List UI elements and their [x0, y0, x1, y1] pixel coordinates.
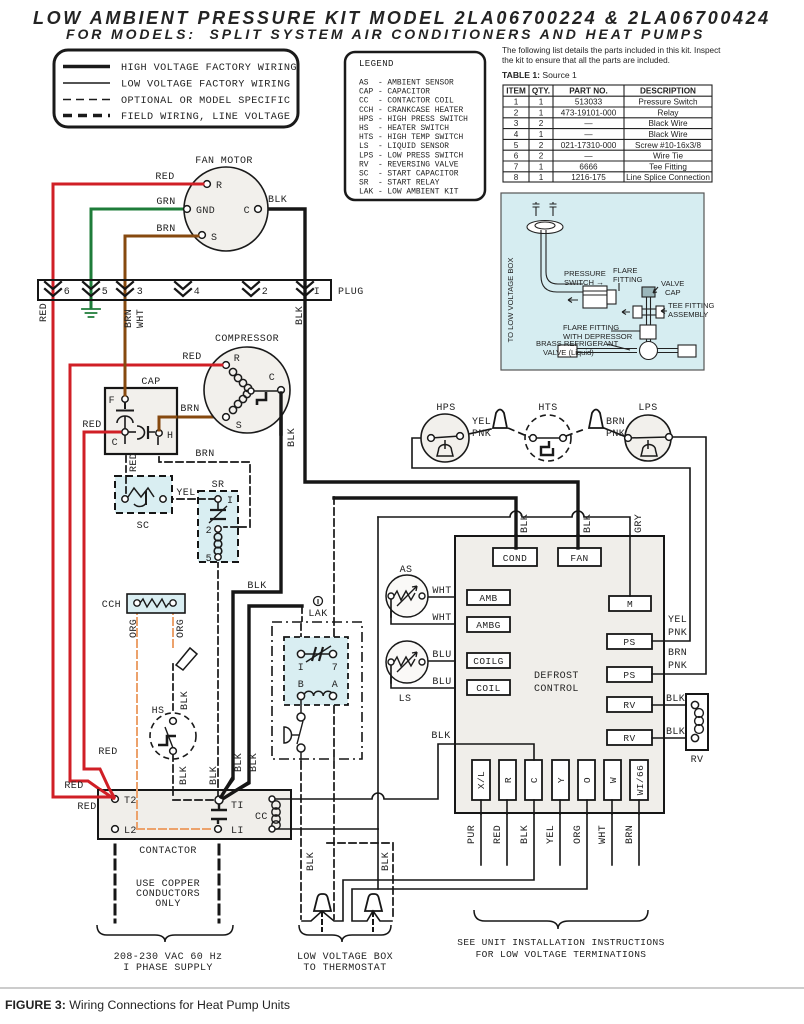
svg-text:BLU: BLU [432, 650, 451, 661]
svg-text:LS - LIQUID SENSOR: LS - LIQUID SENSOR [359, 142, 449, 151]
svg-text:HPS - HIGH PRESS SWITCH: HPS - HIGH PRESS SWITCH [359, 115, 468, 124]
svg-text:AMB: AMB [479, 593, 497, 604]
svg-text:FLARE FITTING: FLARE FITTING [563, 323, 619, 332]
svg-text:1: 1 [514, 98, 519, 107]
svg-text:RED: RED [98, 747, 117, 758]
svg-text:B: B [298, 680, 304, 691]
svg-text:—: — [584, 119, 593, 128]
svg-text:I PHASE SUPPLY: I PHASE SUPPLY [123, 963, 213, 974]
svg-text:WHT: WHT [432, 613, 451, 624]
svg-text:TABLE 1: Source 1: TABLE 1: Source 1 [502, 70, 577, 80]
svg-text:3: 3 [514, 119, 519, 128]
svg-text:VALVE: VALVE [661, 279, 684, 288]
svg-text:1: 1 [539, 162, 544, 171]
svg-text:Wire Tie: Wire Tie [653, 152, 683, 161]
svg-text:COMPRESSOR: COMPRESSOR [215, 334, 279, 345]
svg-text:RV: RV [691, 755, 704, 766]
svg-text:BLK: BLK [666, 694, 685, 705]
svg-text:021-17310-000: 021-17310-000 [561, 141, 617, 150]
svg-text:PRESSURE: PRESSURE [564, 269, 606, 278]
svg-text:RED: RED [64, 781, 83, 792]
svg-text:ASSEMBLY: ASSEMBLY [668, 310, 708, 319]
svg-text:FAN MOTOR: FAN MOTOR [195, 156, 253, 167]
svg-text:FOR MODELS: SPLIT SYSTEM AIR: FOR MODELS: SPLIT SYSTEM AIR CONDITIONER… [66, 26, 705, 42]
svg-text:SC: SC [137, 521, 150, 532]
svg-text:YEL: YEL [176, 488, 195, 499]
svg-text:2: 2 [539, 119, 544, 128]
svg-text:6: 6 [514, 152, 519, 161]
svg-text:BLK: BLK [209, 766, 220, 785]
svg-text:DEFROST: DEFROST [534, 671, 579, 682]
svg-text:Pressure Switch: Pressure Switch [638, 98, 698, 107]
svg-text:RED: RED [129, 453, 140, 472]
svg-text:ITEM: ITEM [506, 87, 526, 96]
svg-text:C: C [529, 777, 540, 783]
svg-text:PNK: PNK [472, 429, 491, 440]
svg-text:COILG: COILG [473, 656, 504, 667]
svg-text:BLK: BLK [287, 428, 298, 447]
svg-text:HPS: HPS [436, 403, 455, 414]
svg-text:HIGH VOLTAGE FACTORY WIRING: HIGH VOLTAGE FACTORY WIRING [121, 63, 297, 74]
svg-text:Line Splice Connection: Line Splice Connection [626, 173, 710, 182]
svg-text:S: S [211, 233, 217, 244]
svg-text:SEE UNIT INSTALLATION INSTRUCT: SEE UNIT INSTALLATION INSTRUCTIONS [457, 937, 664, 948]
svg-text:O: O [582, 777, 593, 783]
svg-text:BRASS REFRIGERANT: BRASS REFRIGERANT [536, 339, 619, 348]
svg-text:—: — [584, 152, 593, 161]
svg-text:R: R [216, 181, 222, 192]
svg-text:5: 5 [514, 141, 519, 150]
svg-text:PNK: PNK [668, 661, 687, 672]
svg-text:BLK: BLK [520, 514, 531, 533]
svg-text:7: 7 [332, 663, 338, 674]
svg-text:PLUG: PLUG [338, 287, 364, 298]
svg-text:GRN: GRN [156, 197, 175, 208]
svg-text:1: 1 [539, 98, 544, 107]
svg-text:LOW VOLTAGE FACTORY WIRING: LOW VOLTAGE FACTORY WIRING [121, 80, 290, 91]
svg-text:F: F [109, 396, 115, 407]
svg-text:Y: Y [556, 777, 567, 783]
svg-text:BRN: BRN [668, 648, 687, 659]
svg-text:2: 2 [206, 526, 212, 537]
svg-text:513033: 513033 [575, 98, 603, 107]
svg-text:AS: AS [400, 565, 413, 576]
svg-text:BLK: BLK [179, 766, 190, 785]
svg-text:CAP - CAPACITOR: CAP - CAPACITOR [359, 88, 430, 97]
svg-text:2: 2 [262, 287, 268, 298]
svg-text:YEL: YEL [668, 615, 687, 626]
svg-text:LAK: LAK [308, 609, 327, 620]
svg-text:BLK: BLK [306, 852, 317, 871]
svg-text:7: 7 [514, 162, 519, 171]
svg-text:BLK: BLK [520, 825, 531, 844]
svg-text:OPTIONAL OR MODEL SPECIFIC: OPTIONAL OR MODEL SPECIFIC [121, 96, 290, 107]
svg-text:CAP: CAP [141, 377, 160, 388]
svg-text:1: 1 [539, 130, 544, 139]
svg-text:LEGEND: LEGEND [359, 59, 394, 69]
svg-text:CC - CONTACTOR COIL: CC - CONTACTOR COIL [359, 97, 454, 106]
svg-text:DESCRIPTION: DESCRIPTION [640, 87, 696, 96]
svg-text:AS - AMBIENT SENSOR: AS - AMBIENT SENSOR [359, 79, 454, 88]
svg-text:TI: TI [231, 801, 244, 812]
svg-text:H: H [167, 431, 173, 442]
svg-text:HTS - HIGH TEMP SWITCH: HTS - HIGH TEMP SWITCH [359, 133, 463, 142]
svg-text:BRN: BRN [156, 224, 175, 235]
svg-text:I: I [314, 287, 320, 298]
svg-text:FOR LOW VOLTAGE TERMINATIONS: FOR LOW VOLTAGE TERMINATIONS [476, 949, 647, 960]
svg-text:Tee Fitting: Tee Fitting [649, 162, 687, 171]
svg-text:BRN: BRN [180, 404, 199, 415]
svg-text:L2: L2 [124, 826, 137, 837]
svg-text:RED: RED [182, 352, 201, 363]
svg-text:SC - START CAPACITOR: SC - START CAPACITOR [359, 170, 459, 179]
svg-text:PNK: PNK [606, 429, 625, 440]
svg-text:1: 1 [539, 108, 544, 117]
svg-text:LS: LS [399, 694, 412, 705]
svg-text:6: 6 [64, 287, 70, 298]
svg-text:W: W [608, 777, 619, 783]
svg-text:BLK: BLK [381, 852, 392, 871]
svg-text:PART NO.: PART NO. [569, 87, 608, 96]
svg-text:5: 5 [206, 554, 212, 565]
svg-text:RED: RED [77, 802, 96, 813]
svg-text:ORG: ORG [176, 619, 187, 638]
svg-text:RED: RED [493, 825, 504, 844]
svg-text:SR - START RELAY: SR - START RELAY [359, 179, 440, 188]
svg-text:2: 2 [514, 108, 519, 117]
svg-text:RV - REVERSING VALVE: RV - REVERSING VALVE [359, 160, 459, 169]
svg-text:Black Wire: Black Wire [648, 130, 688, 139]
svg-text:LI: LI [231, 826, 244, 837]
svg-text:HS: HS [152, 706, 165, 717]
svg-text:C: C [244, 206, 250, 217]
svg-text:BLK: BLK [234, 753, 245, 772]
svg-text:208-230 VAC 60 Hz: 208-230 VAC 60 Hz [114, 952, 223, 963]
svg-text:WHT: WHT [136, 309, 147, 328]
svg-text:BLK: BLK [583, 514, 594, 533]
svg-text:A: A [332, 680, 338, 691]
svg-text:WHT: WHT [432, 586, 451, 597]
svg-text:1: 1 [539, 173, 544, 182]
svg-text:6666: 6666 [579, 162, 598, 171]
svg-text:RED: RED [155, 172, 174, 183]
svg-text:3: 3 [137, 287, 143, 298]
svg-text:BLK: BLK [431, 731, 450, 742]
svg-text:PUR: PUR [467, 825, 478, 844]
svg-text:the kit to ensure that all the: the kit to ensure that all the parts are… [502, 56, 670, 65]
svg-text:TO LOW VOLTAGE BOX: TO LOW VOLTAGE BOX [506, 258, 515, 343]
svg-text:R: R [234, 354, 240, 365]
svg-text:BRN: BRN [625, 825, 636, 844]
svg-text:BRN: BRN [124, 309, 135, 328]
svg-text:RED: RED [39, 303, 50, 322]
svg-text:ORG: ORG [573, 825, 584, 844]
svg-text:BRN: BRN [195, 449, 214, 460]
svg-text:SWITCH →: SWITCH → [564, 278, 604, 287]
svg-text:GND: GND [196, 206, 215, 217]
svg-text:M: M [627, 599, 633, 610]
svg-text:FLARE: FLARE [613, 266, 637, 275]
svg-text:RV: RV [623, 733, 635, 744]
svg-text:—: — [584, 130, 593, 139]
svg-text:BLK: BLK [247, 581, 266, 592]
svg-text:C: C [269, 373, 275, 384]
svg-text:LOW VOLTAGE BOX: LOW VOLTAGE BOX [297, 952, 393, 963]
svg-text:CONTACTOR: CONTACTOR [139, 846, 197, 857]
svg-text:GRY: GRY [634, 514, 645, 533]
svg-text:2: 2 [539, 141, 544, 150]
svg-text:T2: T2 [124, 796, 137, 807]
svg-text:BLK: BLK [268, 195, 287, 206]
svg-text:AMBG: AMBG [476, 620, 500, 631]
svg-text:C: C [112, 438, 118, 449]
svg-text:4: 4 [194, 287, 200, 298]
svg-text:BLK: BLK [295, 306, 306, 325]
svg-text:WI/66: WI/66 [635, 765, 646, 796]
svg-text:Screw #10-16x3/8: Screw #10-16x3/8 [635, 141, 701, 150]
svg-text:FAN: FAN [570, 553, 588, 564]
svg-text:BLK: BLK [666, 727, 685, 738]
svg-text:LPS: LPS [638, 403, 657, 414]
svg-text:FIELD WIRING, LINE VOLTAGE: FIELD WIRING, LINE VOLTAGE [121, 112, 290, 123]
svg-text:BRN: BRN [606, 417, 625, 428]
svg-text:Relay: Relay [658, 108, 680, 117]
svg-text:LAK - LOW AMBIENT KIT: LAK - LOW AMBIENT KIT [359, 188, 459, 197]
svg-text:CC: CC [255, 812, 268, 823]
svg-text:1216-175: 1216-175 [571, 173, 606, 182]
svg-text:COND: COND [503, 553, 527, 564]
svg-text:I: I [298, 663, 304, 674]
svg-text:COIL: COIL [476, 683, 500, 694]
svg-text:4: 4 [514, 130, 519, 139]
svg-text:BLU: BLU [432, 677, 451, 688]
svg-text:RED: RED [82, 420, 101, 431]
svg-text:QTY.: QTY. [532, 87, 550, 96]
svg-text:FITTING: FITTING [613, 275, 643, 284]
svg-text:TO THERMOSTAT: TO THERMOSTAT [303, 963, 386, 974]
svg-text:2: 2 [539, 152, 544, 161]
svg-text:CCH - CRANKCASE HEATER: CCH - CRANKCASE HEATER [359, 106, 463, 115]
svg-text:RV: RV [623, 700, 635, 711]
svg-text:LPS - LOW PRESS SWITCH: LPS - LOW PRESS SWITCH [359, 151, 463, 160]
svg-text:YEL: YEL [546, 825, 557, 844]
svg-text:BLK: BLK [180, 691, 191, 710]
svg-text:S: S [236, 421, 242, 432]
svg-text:FIGURE 3: Wiring Connections f: FIGURE 3: Wiring Connections for Heat Pu… [5, 998, 290, 1012]
svg-text:5: 5 [102, 287, 108, 298]
svg-text:SR: SR [212, 480, 225, 491]
svg-text:R: R [503, 777, 514, 783]
svg-text:ORG: ORG [129, 619, 140, 638]
svg-text:8: 8 [514, 173, 519, 182]
svg-text:Black Wire: Black Wire [648, 119, 688, 128]
svg-text:VALVE (Liquid): VALVE (Liquid) [543, 348, 594, 357]
svg-text:WHT: WHT [598, 825, 609, 844]
svg-text:PS: PS [623, 637, 635, 648]
svg-text:CAP: CAP [665, 288, 681, 297]
svg-text:HTS: HTS [538, 403, 557, 414]
svg-text:PS: PS [623, 670, 635, 681]
svg-text:473-19101-000: 473-19101-000 [561, 108, 617, 117]
svg-text:X/L: X/L [476, 771, 487, 789]
svg-text:CONTROL: CONTROL [534, 684, 579, 695]
svg-text:HS - HEATER SWITCH: HS - HEATER SWITCH [359, 124, 449, 133]
svg-text:ONLY: ONLY [155, 899, 181, 910]
svg-text:TEE FITTING: TEE FITTING [668, 301, 714, 310]
svg-text:CCH: CCH [102, 600, 121, 611]
svg-text:BLK: BLK [249, 753, 260, 772]
svg-text:I: I [227, 496, 233, 507]
svg-text:The following list details the: The following list details the parts inc… [502, 46, 721, 55]
svg-text:PNK: PNK [668, 628, 687, 639]
svg-text:YEL: YEL [472, 417, 491, 428]
svg-text:LOW AMBIENT PRESSURE KIT MODEL: LOW AMBIENT PRESSURE KIT MODEL 2LA067002… [33, 8, 771, 28]
